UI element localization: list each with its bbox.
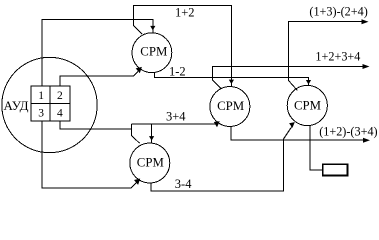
svg-text:СРМ: СРМ bbox=[294, 99, 321, 113]
wire 3+4 rail to CPM3 lower-left bbox=[132, 123, 218, 124]
svg-text:СРМ: СРМ bbox=[217, 99, 244, 113]
matrix box inner vertical divider bbox=[49, 86, 51, 121]
arrowhead output (1+2)-(3+4) bbox=[363, 138, 370, 143]
wire cell1 to CPM1 top bbox=[42, 20, 153, 86]
wire CPM2 diff output 3-4 to CPM4 lower-left bbox=[151, 125, 292, 191]
source block АУД outline circle bbox=[2, 57, 97, 152]
arrowhead into CPM4 top bbox=[306, 80, 311, 85]
junction riser and diagonal into CPM2 bbox=[132, 124, 140, 143]
wire cell4 to junction bbox=[60, 121, 132, 129]
arrowhead into CPM3 lower-left bbox=[214, 121, 220, 127]
wire drop into CPM2 top bbox=[151, 124, 153, 143]
arrowhead into CPM3 top bbox=[229, 80, 234, 85]
load resistor bbox=[323, 164, 348, 175]
wire CPM1 diff output 1-2 to CPM4 top bbox=[154, 73, 308, 86]
svg-text:1: 1 bbox=[38, 90, 44, 102]
CPM4 circle bbox=[287, 85, 327, 125]
wire cell3 to CPM2 lower-left bbox=[42, 121, 138, 188]
svg-text:1+2: 1+2 bbox=[175, 6, 195, 20]
svg-text:1-2: 1-2 bbox=[169, 65, 186, 79]
svg-text:1+2+3+4: 1+2+3+4 bbox=[315, 50, 360, 64]
source channel matrix box bbox=[31, 86, 70, 121]
arrowhead into CPM2 top bbox=[149, 136, 154, 141]
svg-text:(1+3)-(2+4): (1+3)-(2+4) bbox=[309, 4, 367, 18]
wire CPM3 sum output 1+2+3+4 bbox=[213, 67, 363, 89]
matrix box inner horizontal divider bbox=[31, 103, 70, 105]
wire CPM3 diff output (1+2)-(3+4) bbox=[231, 126, 363, 140]
arrowhead into CPM4 lower-left bbox=[289, 122, 295, 128]
wire CPM1 sum output 1+2 rail to CPM3 top bbox=[134, 5, 232, 86]
svg-text:3-4: 3-4 bbox=[175, 177, 192, 191]
svg-text:СРМ: СРМ bbox=[137, 156, 164, 170]
wire CPM4 sum output (1+3)-(2+4) bbox=[289, 22, 362, 91]
arrowhead into CPM1 top bbox=[150, 26, 155, 31]
svg-text:3+4: 3+4 bbox=[166, 110, 186, 124]
wire cell2 to CPM1 lower-left bbox=[60, 68, 141, 86]
CPM3 circle bbox=[210, 87, 250, 127]
svg-text:2: 2 bbox=[57, 90, 63, 102]
svg-text:4: 4 bbox=[57, 108, 63, 120]
svg-text:АУД: АУД bbox=[4, 98, 29, 113]
wire CPM4 unused output to load bbox=[310, 126, 323, 171]
arrowhead into CPM2 lower-left bbox=[134, 179, 140, 185]
svg-text:3: 3 bbox=[38, 108, 44, 120]
arrowhead output 1+2+3+4 bbox=[363, 64, 370, 69]
svg-text:СРМ: СРМ bbox=[140, 45, 167, 59]
arrowhead into CPM1 lower-left bbox=[136, 67, 142, 73]
svg-text:(1+2)-(3+4): (1+2)-(3+4) bbox=[319, 124, 377, 138]
CPM1 circle bbox=[132, 33, 172, 73]
arrowhead output (1+3)-(2+4) bbox=[362, 19, 369, 24]
CPM2 circle bbox=[130, 143, 170, 183]
